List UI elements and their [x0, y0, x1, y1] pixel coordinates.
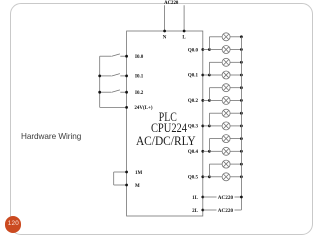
svg-text:Q0.5: Q0.5	[188, 176, 199, 181]
svg-text:AC220: AC220	[164, 1, 179, 6]
svg-text:AC/DC/RLY: AC/DC/RLY	[136, 134, 196, 148]
svg-text:24V(L+): 24V(L+)	[134, 106, 152, 111]
svg-text:1L: 1L	[192, 196, 199, 201]
svg-text:AC220: AC220	[218, 208, 234, 214]
svg-text:Q0.1: Q0.1	[188, 74, 199, 79]
svg-text:Q0.2: Q0.2	[188, 99, 199, 104]
svg-text:Q0.3: Q0.3	[188, 125, 199, 130]
svg-text:CPU224: CPU224	[151, 121, 187, 135]
svg-text:M: M	[135, 184, 140, 189]
svg-text:1M: 1M	[135, 171, 143, 176]
svg-text:N: N	[163, 36, 167, 41]
svg-text:AC220: AC220	[218, 195, 234, 201]
svg-text:I0.0: I0.0	[135, 55, 144, 60]
svg-text:Q0.0: Q0.0	[188, 48, 199, 53]
svg-text:2L: 2L	[192, 209, 199, 214]
svg-text:I0.2: I0.2	[135, 91, 144, 96]
svg-text:Q0.4: Q0.4	[188, 150, 199, 155]
svg-text:I0.1: I0.1	[135, 75, 144, 80]
svg-text:L: L	[182, 36, 186, 41]
